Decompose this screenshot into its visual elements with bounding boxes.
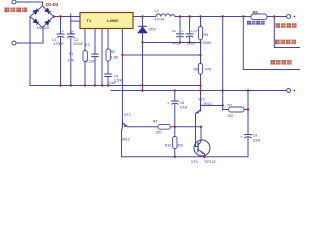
svg-text:C9: C9 [253, 133, 258, 137]
svg-text:470uF: 470uF [172, 41, 181, 45]
svg-text:9013: 9013 [204, 102, 212, 106]
svg-text:VD5: VD5 [149, 28, 156, 32]
svg-text:R7: R7 [228, 103, 233, 107]
svg-text:9012: 9012 [122, 137, 130, 141]
svg-text:47mH: 47mH [155, 18, 165, 22]
svg-text:2.2uF: 2.2uF [86, 60, 96, 64]
svg-text:VT3: VT3 [198, 97, 205, 101]
svg-text:R1: R1 [69, 52, 73, 56]
svg-text:300K: 300K [203, 41, 212, 45]
svg-text:L2: L2 [155, 9, 159, 13]
svg-text:R5: R5 [204, 33, 209, 37]
svg-text:R8: R8 [253, 10, 259, 15]
svg-text:220: 220 [177, 144, 183, 148]
svg-text:10nF: 10nF [253, 138, 262, 142]
svg-text:220uF: 220uF [187, 41, 196, 45]
svg-text:220: 220 [156, 130, 162, 134]
svg-text:R2: R2 [111, 50, 116, 54]
svg-text:470uF: 470uF [54, 42, 65, 46]
svg-text:4.7K: 4.7K [68, 58, 75, 62]
svg-text:C6: C6 [172, 29, 176, 33]
svg-text:C3: C3 [85, 43, 90, 47]
svg-text:220: 220 [228, 114, 234, 118]
svg-text:10uF: 10uF [109, 81, 116, 85]
svg-text:TIP122: TIP122 [204, 160, 216, 164]
svg-text:C7: C7 [194, 29, 198, 33]
svg-text:VT2: VT2 [124, 113, 131, 117]
svg-text:10uF: 10uF [180, 105, 189, 109]
svg-text:⊥: ⊥ [70, 30, 74, 35]
svg-text:R10: R10 [165, 144, 172, 148]
svg-text:VT4: VT4 [191, 160, 198, 164]
svg-text:47K: 47K [205, 67, 212, 71]
svg-text:R4: R4 [153, 120, 158, 124]
svg-text:1N4120: 1N4120 [37, 26, 50, 30]
svg-text:D1-D4: D1-D4 [46, 2, 59, 7]
svg-text:L4960: L4960 [107, 18, 119, 23]
svg-text:220uF: 220uF [73, 42, 84, 46]
svg-text:R6: R6 [194, 67, 199, 71]
svg-text:1.5K: 1.5K [111, 56, 119, 60]
svg-text:T1: T1 [87, 18, 92, 23]
